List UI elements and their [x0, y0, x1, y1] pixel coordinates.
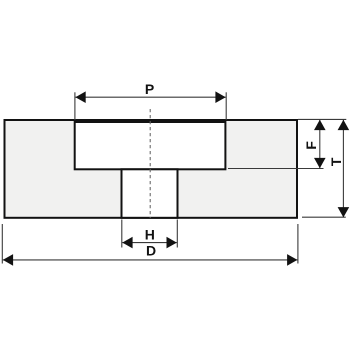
wheel body outline: [5, 120, 298, 218]
dimension T arrowhead top: [338, 120, 350, 130]
svg-text:F: F: [303, 141, 319, 150]
dimension P arrowhead left: [75, 91, 85, 103]
dimension H extension line left: [121, 220, 123, 248]
dimension T bottom extension line: [302, 216, 346, 218]
dimension P arrowhead right: [215, 91, 225, 103]
dimension D arrowhead left: [3, 254, 13, 266]
dimension D arrowhead right: [287, 254, 297, 266]
dimension H line: [122, 242, 177, 244]
dimension T line: [342, 120, 344, 218]
dimension F top extension line: [298, 118, 346, 120]
svg-text:P: P: [145, 81, 154, 97]
centerline (dashed): [149, 109, 151, 218]
dimension F arrowhead top: [314, 120, 326, 130]
svg-text:H: H: [145, 227, 155, 243]
dimension P extension line right: [225, 92, 227, 120]
dimension D line: [3, 259, 298, 261]
dimension T arrowhead bottom: [338, 207, 350, 217]
dimension H arrowhead left: [122, 237, 132, 249]
dimension H extension line right: [176, 220, 178, 248]
dimension P line: [75, 96, 225, 98]
dimension H arrowhead right: [167, 237, 177, 249]
dimension F line: [319, 120, 321, 168]
dimension F arrowhead bottom: [314, 158, 326, 168]
bore hole (width H): [122, 169, 178, 218]
dimension F bottom extension line: [228, 168, 324, 170]
svg-text:T: T: [328, 157, 344, 166]
dimension P extension line left: [74, 92, 76, 120]
svg-text:D: D: [146, 243, 156, 259]
dimension D extension line right: [297, 224, 299, 264]
recess (width P, depth F): [75, 122, 226, 169]
dimension D extension line left: [1, 224, 3, 264]
